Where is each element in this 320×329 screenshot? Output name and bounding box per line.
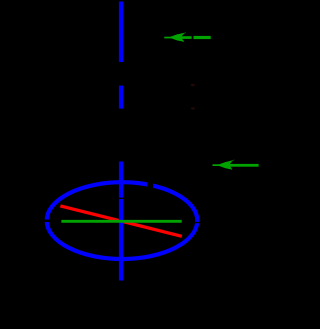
upper barb spur bbox=[232, 159, 235, 161]
upper barb spur bbox=[184, 32, 187, 34]
thin tip line bbox=[164, 37, 173, 39]
green horizontal diameter line bbox=[61, 220, 181, 223]
barbed arrowhead bbox=[217, 160, 233, 169]
gap in ellipse top-right arc bbox=[147, 177, 153, 188]
green arrow (middle, pointing left at ellipse) bbox=[213, 159, 259, 170]
shaft part 2 bbox=[194, 36, 211, 39]
blue dashed vertical precession axis: segment 4 bbox=[119, 199, 123, 281]
blue precession circle (ellipse) bbox=[47, 182, 198, 259]
faint speck lower bbox=[191, 107, 195, 109]
green arrow (top, pointing left at axis) bbox=[164, 32, 210, 42]
red tilted spin-axis line bbox=[60, 206, 181, 236]
gap at ellipse left extreme bbox=[42, 220, 49, 223]
faint speck upper bbox=[191, 84, 195, 86]
shaft bbox=[229, 164, 258, 167]
gap at ellipse right extreme bbox=[195, 222, 202, 223]
shaft part 1 bbox=[181, 36, 192, 39]
blue dashed vertical precession axis: segment 1 bbox=[119, 2, 123, 63]
barbed arrowhead bbox=[169, 33, 185, 42]
blue dashed vertical precession axis: segment 3 bbox=[119, 162, 123, 198]
blue dashed vertical precession axis: segment 2 bbox=[119, 86, 123, 109]
thin tip line bbox=[213, 164, 222, 166]
